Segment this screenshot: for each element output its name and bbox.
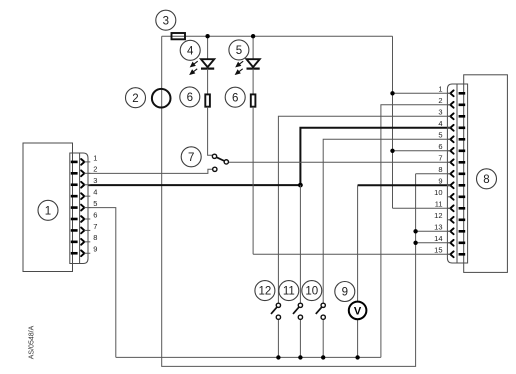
svg-text:10: 10: [434, 188, 442, 197]
resistor R6b: [251, 94, 256, 106]
junction voltmeter on bus 1: [355, 355, 359, 359]
svg-text:9: 9: [438, 177, 442, 186]
svg-text:5: 5: [438, 131, 442, 140]
wire: X8 pin 1 stub: [393, 92, 451, 94]
svg-text:5: 5: [93, 199, 97, 208]
X1 pin 3: [71, 176, 98, 188]
svg-text:1: 1: [438, 85, 442, 94]
X8 pin 11: [435, 200, 465, 212]
switch S10 upper contact: [321, 303, 325, 307]
wire: X8 pin 2 down to bottom bus 1: [381, 105, 451, 358]
lamp/generator B2 (circle component): [152, 89, 171, 108]
wire: X8 pin 15 from LED5 branch: [253, 253, 450, 255]
X1 pin 9: [71, 245, 98, 257]
junction switch 10 on bus 1: [321, 355, 325, 359]
X1 pin 5: [71, 199, 98, 211]
label circle 2: [126, 88, 146, 108]
svg-text:11: 11: [435, 200, 443, 209]
svg-text:2: 2: [438, 96, 442, 105]
svg-text:6: 6: [438, 142, 442, 151]
switch S11 upper contact: [298, 303, 302, 307]
svg-text:13: 13: [434, 223, 442, 232]
junction at pin 6: [390, 149, 394, 153]
wire: right vertical from top wire to X8 pin 11: [392, 36, 394, 208]
X8 pin 10: [434, 188, 465, 200]
svg-text:1: 1: [93, 153, 97, 162]
label circle 5: [229, 40, 249, 60]
switch S10 lower contact: [321, 315, 325, 319]
X1 pin 7: [71, 222, 98, 234]
wire: LED5 to resistor: [252, 69, 254, 94]
wire: X8 pin 11 stub: [393, 207, 451, 209]
switch S11 lever: [293, 307, 299, 314]
svg-text:8: 8: [483, 174, 489, 186]
wire: bottom bus 1: [116, 356, 381, 358]
svg-text:4: 4: [93, 188, 97, 197]
wire: X8 pin 4 to measuring point (thick): [300, 128, 450, 185]
wire: lamp/fuse vertical down the left-middle, bottom bus 2, rise to X8 pin 8: [162, 36, 416, 366]
voltmeter V9: [349, 302, 367, 320]
label circle 9: [335, 282, 355, 302]
wire: X8 pin 8 stub: [416, 173, 451, 175]
wire: switch 11 to bus 1: [299, 320, 301, 358]
X1 pin 2: [71, 165, 98, 177]
switch S10 lever: [316, 307, 322, 314]
X8 pin 5: [438, 131, 465, 143]
svg-text:8: 8: [438, 165, 442, 174]
label circle 4: [180, 40, 200, 60]
X8 pin 3: [438, 108, 465, 120]
svg-text:12: 12: [434, 211, 442, 220]
drawing number AS/0548/A: [29, 325, 36, 359]
wire: X1 pin 3 thick wire: [88, 184, 300, 186]
junction on bus2 riser at pin 13: [413, 229, 417, 233]
fuse F3: [172, 33, 186, 39]
X1 pin 4: [71, 188, 98, 200]
wire: X1 pin 5 to bus 1: [88, 208, 116, 358]
junction switch 12 on bus 1: [276, 355, 280, 359]
svg-text:3: 3: [438, 108, 442, 117]
svg-text:3: 3: [163, 15, 169, 27]
component box 8 (right unit): [464, 75, 508, 273]
X8 pin 4: [438, 119, 465, 131]
X8 pin 2: [438, 96, 465, 108]
svg-text:15: 15: [434, 246, 442, 255]
X8 pin 6: [438, 142, 465, 154]
svg-text:7: 7: [188, 152, 194, 164]
wire: voltmeter riser: [357, 185, 359, 301]
svg-text:12: 12: [259, 286, 272, 298]
junction LED5 branch on top wire: [251, 34, 255, 38]
junction on bus2 riser at pin 14: [413, 241, 417, 245]
connector X8 housing: [447, 84, 467, 263]
label circle 10: [302, 281, 322, 301]
wire: X8 pin 7 from switch 7 common: [229, 161, 451, 163]
svg-text:2: 2: [132, 93, 138, 105]
X8 pin 8: [438, 165, 465, 177]
svg-text:AS/0548/A: AS/0548/A: [29, 325, 36, 359]
resistor R6a: [205, 94, 210, 106]
wire: resistor to switch 7 upper contact: [208, 107, 213, 156]
X8 pin 13: [434, 223, 465, 235]
svg-text:4: 4: [438, 119, 442, 128]
component box 1 (left unit): [23, 143, 73, 272]
svg-text:4: 4: [187, 45, 194, 57]
wire: switch 10 to bus 1: [322, 320, 324, 358]
X8 pin 15: [434, 246, 465, 258]
svg-text:9: 9: [93, 245, 97, 254]
svg-text:7: 7: [438, 154, 442, 163]
wire: LED4 to resistor: [207, 69, 209, 94]
switch S11 lower contact: [298, 315, 302, 319]
svg-text:6: 6: [187, 92, 193, 104]
wire: LED4 branch top: [207, 36, 209, 59]
switch S7 common contact: [224, 160, 228, 164]
svg-text:10: 10: [305, 286, 318, 298]
wire: X8 pin 3 to switch 12: [278, 116, 450, 303]
wire: LED5 branch top: [252, 36, 254, 59]
svg-text:14: 14: [434, 234, 442, 243]
label circle 12: [255, 281, 275, 301]
connector X1 housing: [70, 153, 88, 264]
svg-text:11: 11: [283, 286, 295, 298]
wire: tap down to switch 11: [299, 185, 301, 303]
wire: X8 pin 9 to voltmeter (thick stub): [358, 184, 451, 186]
switch S7 lower contact: [213, 167, 217, 171]
svg-text:5: 5: [236, 45, 242, 57]
wire: LED5 branch down to pin 15 wire: [252, 107, 254, 255]
svg-text:6: 6: [93, 210, 97, 219]
X1 pin 6: [71, 210, 98, 222]
wire: X1 pin 2 to switch 7 lower contact: [88, 169, 213, 173]
svg-text:1: 1: [45, 205, 51, 217]
wire: X8 pin 13 stub: [416, 230, 451, 232]
wire: top feed from fuse node to right vertical: [162, 35, 393, 37]
svg-text:8: 8: [93, 233, 97, 242]
LED D4: [201, 59, 214, 68]
X8 pin 1: [438, 85, 465, 97]
switch S12 lever: [271, 307, 277, 314]
label circle 6 (right): [225, 87, 245, 107]
LED D5: [247, 59, 260, 68]
wire: switch 12 to bus 1: [277, 320, 279, 358]
LED D4 emission arrows: [190, 61, 198, 74]
X8 pin 7: [438, 154, 465, 166]
X1 pin 1: [71, 153, 98, 165]
svg-text:7: 7: [93, 222, 97, 231]
switch S12 upper contact: [276, 303, 280, 307]
switch S7 lever: [215, 156, 227, 162]
junction LED4 branch on top wire: [205, 34, 209, 38]
X8 pin 9: [438, 177, 465, 189]
switch S12 lower contact: [276, 315, 280, 319]
junction thick wire / switch 11 tap: [298, 183, 303, 188]
wire: X8 pin 5 to switch 10: [323, 139, 450, 303]
wire: X8 pin 6 stub: [393, 150, 451, 152]
svg-text:2: 2: [93, 165, 97, 174]
svg-text:6: 6: [232, 92, 238, 104]
label circle 8: [477, 169, 497, 189]
X8 pin 14: [434, 234, 465, 246]
label circle 7: [181, 147, 201, 167]
X8 pin 12: [434, 211, 465, 223]
svg-text:V: V: [354, 305, 362, 317]
LED D5 emission arrows: [236, 61, 244, 74]
label circle 3: [156, 10, 176, 30]
junction switch 11 on bus 1: [298, 355, 302, 359]
svg-text:9: 9: [342, 287, 348, 299]
X1 pin 8: [71, 233, 98, 245]
wire: X8 pin 14 stub: [416, 242, 451, 244]
svg-text:3: 3: [93, 176, 97, 185]
label circle 11: [279, 281, 299, 301]
label circle 6 (left): [180, 87, 200, 107]
junction at pin 1: [390, 91, 394, 95]
switch S7 upper contact: [212, 154, 216, 158]
wire: voltmeter to bus 1: [357, 319, 359, 357]
label circle 1: [38, 200, 58, 220]
